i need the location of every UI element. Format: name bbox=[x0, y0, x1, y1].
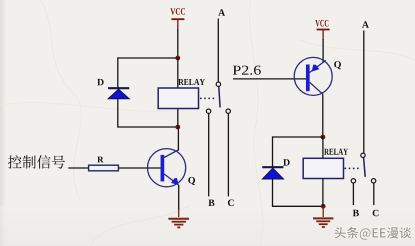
power symbol VCC (left) bbox=[170, 8, 185, 30]
transistor Q (right, PNP) circle bbox=[294, 57, 332, 95]
relay coil box (left) bbox=[158, 88, 198, 109]
transistor Q (left) emitter arrow bbox=[171, 178, 179, 185]
wire collector down to junction (right) bbox=[322, 95, 324, 138]
wire from control signal to resistor bbox=[68, 167, 88, 169]
wire contact C down (left) bbox=[227, 114, 229, 197]
junction dot top (right) bbox=[321, 135, 326, 140]
transistor Q (left) emitter diagonal bbox=[164, 174, 179, 185]
wire ground stub (right) bbox=[322, 206, 324, 217]
relay RELAY (left) label bbox=[178, 79, 205, 85]
junction dot bottom (right) bbox=[321, 204, 326, 209]
power symbol VCC (right) bbox=[315, 20, 329, 40]
wire junction down to relay (right) bbox=[322, 137, 324, 158]
wire left vertical lower (diode branch) bbox=[118, 99, 178, 127]
switch common contact circle (right) bbox=[361, 153, 365, 157]
wire diode branch upper (right) bbox=[272, 136, 274, 166]
transistor Q (right) collector diagonal bbox=[310, 82, 324, 94]
switch blade (right) bbox=[364, 158, 366, 177]
transistor Q (right) emitter arrow (pointing to bar) bbox=[312, 65, 320, 72]
resistor R label bbox=[97, 157, 103, 163]
diode D (right) symbol bbox=[262, 167, 283, 179]
diode D (left) label bbox=[97, 79, 103, 85]
switch contact B circle (right) bbox=[351, 179, 355, 183]
ground symbol (left) bbox=[168, 219, 189, 228]
switch contact B circle (left) bbox=[206, 109, 210, 113]
wire relay to ground junction (right) bbox=[322, 179, 324, 207]
wire contact B down (left) bbox=[208, 114, 210, 197]
wire relay to bottom junction (left) bbox=[177, 109, 179, 128]
switch common contact circle (left) bbox=[216, 82, 220, 86]
wire node A down to switch common (right) bbox=[363, 31, 365, 153]
transistor Q (right) emitter diagonal bbox=[309, 60, 325, 72]
wire VCC stub down to junction (left) bbox=[177, 29, 179, 58]
control signal text 控制信号 bbox=[8, 155, 65, 169]
node A label (right) bbox=[362, 21, 369, 28]
wire resistor to transistor base bbox=[119, 167, 161, 169]
wire diode branch lower (right) bbox=[273, 179, 323, 206]
diode D (left) symbol bbox=[108, 88, 129, 99]
transistor Q (left) base bar bbox=[161, 155, 165, 182]
watermark 头条@EE漫谈 bbox=[334, 227, 411, 240]
wire contact C down (right) bbox=[373, 183, 375, 205]
relay coil box (right) bbox=[303, 158, 343, 178]
transistor Q (left) collector diagonal bbox=[164, 150, 178, 158]
diode D (right) label bbox=[283, 159, 289, 165]
node C label (right) bbox=[373, 210, 379, 217]
switch contact C circle (left) bbox=[226, 109, 230, 113]
wire junction left to diode (right) bbox=[273, 136, 323, 138]
wire left vertical upper (diode branch) bbox=[117, 57, 119, 87]
relay RELAY (right) label bbox=[324, 149, 348, 155]
node B label (left) bbox=[208, 200, 214, 206]
transistor Q (left, NPN) circle bbox=[148, 149, 186, 187]
junction dot bottom-left bbox=[175, 125, 180, 130]
relay dotted link (left) bbox=[200, 97, 215, 99]
wire VCC junction down to relay (left) bbox=[177, 58, 179, 88]
junction dot top-left bbox=[175, 56, 180, 61]
transistor Q (right) base bar bbox=[306, 65, 310, 92]
transistor Q (right) label bbox=[334, 61, 341, 69]
switch blade (left) bbox=[219, 87, 220, 108]
switch contact C circle (right) bbox=[371, 179, 375, 183]
wire node A down to switch common (left) bbox=[217, 19, 219, 82]
wire emitter down to ground (left) bbox=[178, 185, 180, 210]
wire contact B down (right) bbox=[352, 183, 354, 205]
ground symbol (right) bbox=[313, 218, 333, 227]
node B label (right) bbox=[353, 210, 359, 216]
node C label (left) bbox=[228, 200, 234, 207]
transistor Q (left) label bbox=[188, 177, 195, 185]
wire top horizontal of diode loop (left) bbox=[118, 57, 178, 59]
relay dotted link (right) bbox=[345, 167, 361, 169]
P2.6 net label bbox=[233, 66, 261, 75]
node A label (left) bbox=[218, 9, 225, 16]
wire P2.6 to base (right) bbox=[233, 78, 306, 80]
wire VCC down to transistor emitter (right) bbox=[322, 39, 324, 63]
wire collector up to junction (left) bbox=[177, 127, 179, 151]
resistor R body bbox=[89, 165, 119, 171]
